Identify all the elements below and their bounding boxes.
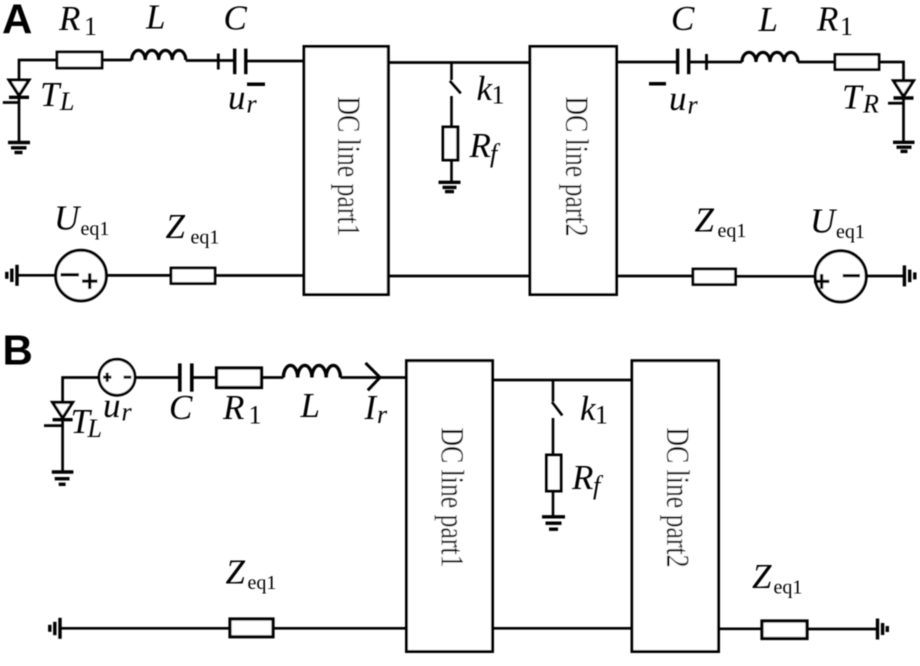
plus inside u_r (B) — [103, 373, 111, 382]
thyristor T_L (A) cathode bar — [9, 96, 29, 99]
switch k1 (A) upper stub — [450, 63, 453, 81]
label T_R — [842, 78, 879, 119]
label Rf (A) — [469, 126, 502, 168]
wire capacitor to L with plus tick (A right) — [690, 61, 742, 64]
wire R1 to thyristor corner (A right) — [879, 62, 904, 81]
label I_r (B) — [364, 388, 389, 429]
svg-text:A: A — [2, 0, 32, 43]
svg-text:eq1: eq1 — [718, 220, 747, 242]
wire part2 to Z_eq1 (B bottom right) — [719, 627, 763, 630]
wire Rf to ground (A) — [450, 160, 453, 182]
wire part2 to capacitor (A right) — [617, 61, 677, 64]
svg-text:C: C — [169, 388, 193, 427]
wire R1 to L (A left) — [102, 59, 132, 62]
svg-text:R: R — [222, 388, 244, 427]
inductor L (A right) — [742, 52, 798, 62]
plus inside U_eq1 right — [814, 274, 829, 289]
thyristor T_R triangle — [894, 81, 914, 97]
svg-text:eq1: eq1 — [248, 572, 277, 594]
inductor L (B) — [283, 365, 340, 377]
label U_eq1 (A left) — [54, 199, 109, 240]
voltage source u_r (B) circle — [99, 359, 135, 395]
svg-text:L: L — [300, 386, 320, 425]
wire thyristor to ground (A left) — [18, 97, 21, 142]
svg-text:r: r — [377, 400, 388, 429]
impedance Z_eq1 (B bottom right) — [762, 621, 807, 639]
svg-text:C: C — [671, 0, 695, 38]
wire source to capacitor (B) — [135, 376, 178, 379]
ground (A left) — [8, 143, 30, 153]
svg-text:L: L — [87, 414, 102, 443]
label U_eq1 (A right) — [810, 202, 865, 244]
svg-text:L: L — [59, 87, 74, 116]
wire Z_eq1 to part1 (B bottom) — [273, 627, 407, 630]
wire B corner thyristor to source — [63, 378, 100, 403]
svg-text:B: B — [3, 327, 33, 374]
resistor Rf (B) — [547, 455, 562, 491]
capacitor C plate right (A left) — [244, 49, 247, 75]
voltage source U_eq1 (A bottom left) circle — [56, 250, 107, 301]
inductor L (A left) — [132, 50, 186, 60]
svg-text:C: C — [224, 0, 248, 38]
svg-text:r: r — [122, 398, 133, 427]
switch k1 (B) upper stub — [552, 380, 555, 402]
wire source to ground (A bottom right) — [866, 275, 904, 278]
label R1 (A left) — [58, 0, 97, 41]
wire thyristor to ground (A right) — [902, 98, 905, 142]
thyristor T_R gate lead — [888, 102, 904, 105]
svg-text:Z: Z — [166, 207, 186, 246]
svg-text:Z: Z — [695, 201, 715, 240]
capacitor C plate right (A right) — [687, 49, 690, 75]
svg-text:DC line part1: DC line part1 — [434, 428, 470, 568]
svg-text:1: 1 — [595, 401, 608, 430]
label k1 (A) — [477, 69, 505, 110]
label Z_eq1 (A left) — [166, 207, 220, 249]
minus inside U_eq1 right — [843, 274, 860, 277]
svg-text:U: U — [54, 199, 82, 238]
svg-text:r: r — [688, 91, 699, 120]
box DC line part1 (B) — [407, 361, 493, 652]
wire capacitor to R1 (B) — [194, 376, 217, 379]
thyristor T_L (B) cathode bar — [53, 418, 73, 421]
label Z_eq1 (B left) — [226, 553, 277, 595]
resistor Rf (A) — [443, 127, 458, 160]
svg-text:eq1: eq1 — [774, 577, 803, 599]
label u_r (A right) — [669, 79, 699, 120]
impedance Z_eq1 (A bottom right) — [693, 269, 736, 285]
wire A top-left from thyristor corner to R1 — [19, 60, 57, 80]
voltage source U_eq1 (A bottom right) circle — [815, 251, 866, 302]
resistor R1 (A left) — [57, 52, 102, 68]
thyristor T_L (A) triangle — [9, 80, 29, 96]
wire Z_eq1 to part1 (A bottom) — [215, 274, 305, 277]
plus polarity tick (A right capacitor) — [705, 54, 708, 70]
wire source to Z_eq1 (A bottom left) — [106, 274, 171, 277]
label k1 (B) — [580, 389, 608, 430]
capacitor C plate left (B) — [178, 363, 182, 391]
svg-text:DC line part1: DC line part1 — [330, 97, 366, 237]
box DC line part2 (A) — [530, 47, 617, 295]
wire Z_eq1 to source (A bottom right) — [736, 275, 816, 278]
svg-text:R: R — [862, 90, 879, 119]
wire L to part1 with current arrow (B) — [340, 376, 407, 379]
label R1 (A right) — [816, 0, 853, 41]
minus inside U_eq1 left — [61, 273, 80, 276]
current arrow I_r (B) — [366, 363, 381, 390]
thyristor T_L (A) gate lead — [3, 101, 19, 104]
svg-text:DC line part2: DC line part2 — [659, 428, 695, 568]
box DC line part1 (A) — [304, 47, 388, 295]
svg-text:R: R — [571, 458, 593, 497]
wire ground to Z_eq1 (B bottom left) — [61, 627, 230, 630]
svg-text:eq1: eq1 — [81, 218, 110, 240]
svg-text:1: 1 — [492, 81, 505, 110]
capacitor C plate left (A right) — [676, 49, 679, 75]
svg-text:Z: Z — [752, 557, 772, 596]
minus inside u_r (B) — [124, 376, 132, 379]
minus sign of u_r (A right) — [649, 82, 666, 86]
minus sign over u_r (A left) — [247, 82, 265, 86]
svg-text:L: L — [145, 0, 165, 37]
wire capacitor to DC line part1 (A) — [247, 60, 305, 63]
ground (B bottom left, rotated) — [50, 618, 60, 639]
svg-text:u: u — [103, 386, 121, 425]
wire part1 to part2 top (B) — [493, 379, 633, 382]
wire L to R1 (A right) — [798, 61, 835, 64]
wire switch to Rf (A) — [450, 96, 453, 127]
wire part1 to part2 top (A) — [388, 61, 530, 64]
svg-text:1: 1 — [84, 12, 97, 41]
svg-text:T: T — [40, 75, 62, 114]
svg-text:Z: Z — [226, 553, 246, 592]
switch k1 (B) blade — [552, 402, 562, 415]
wire part1 to part2 bottom (A) — [388, 275, 530, 278]
wire part2 to Z_eq1 (A bottom right) — [617, 275, 694, 278]
label u_r (B) — [103, 386, 133, 427]
label Z_eq1 (B right) — [752, 557, 802, 599]
label Rf (B) — [571, 458, 604, 500]
thyristor T_L (B) gate lead — [44, 424, 63, 427]
resistor R1 (B) — [217, 368, 262, 388]
plus inside U_eq1 left — [82, 273, 98, 289]
svg-text:u: u — [669, 79, 687, 118]
svg-text:DC line part2: DC line part2 — [558, 97, 594, 237]
capacitor C plate left (A left) — [233, 49, 236, 75]
thyristor T_L (B) triangle — [53, 402, 73, 418]
ground (A bottom left, rotated) — [7, 265, 17, 286]
wire thyristor to ground (B) — [61, 419, 64, 471]
svg-text:R: R — [816, 0, 838, 39]
svg-text:U: U — [810, 202, 838, 241]
svg-text:R: R — [469, 126, 491, 165]
wire Rf to ground (B) — [552, 491, 555, 516]
svg-text:eq1: eq1 — [191, 227, 220, 249]
svg-text:1: 1 — [840, 12, 853, 41]
switch k1 (A) blade — [450, 81, 461, 94]
svg-text:T: T — [842, 78, 864, 117]
ground (B left) — [52, 472, 74, 484]
plus polarity tick (A left capacitor) — [217, 54, 220, 70]
wire L to capacitor C (A left) with plus tick — [186, 59, 233, 62]
box DC line part2 (B) — [632, 361, 719, 652]
svg-text:eq1: eq1 — [836, 221, 865, 243]
ground (A right top) — [893, 142, 915, 151]
ground under Rf (A) — [439, 182, 461, 191]
svg-text:r: r — [247, 90, 258, 119]
wire part1 to part2 bottom (B) — [493, 627, 633, 630]
svg-text:L: L — [758, 0, 778, 39]
label R1 (B) — [222, 388, 262, 430]
label T_L (A) — [40, 75, 74, 116]
ground (B bottom right, rotated) — [878, 619, 888, 640]
capacitor C plate right (B) — [190, 363, 194, 391]
wire switch to Rf (B) — [552, 418, 555, 455]
thyristor T_R cathode bar — [894, 96, 914, 99]
ground under Rf (B) — [542, 517, 565, 529]
ground (A bottom right, rotated) — [904, 265, 914, 286]
impedance Z_eq1 (B bottom left) — [230, 619, 273, 637]
label Z_eq1 (A right) — [695, 201, 747, 243]
wire R1 to L (B) — [262, 376, 284, 379]
svg-text:R: R — [58, 0, 80, 38]
label T_L (B) — [71, 402, 102, 443]
svg-text:u: u — [228, 78, 246, 117]
label u_r (A left) — [228, 78, 258, 119]
wire ground to source U_eq1 (A bottom left) — [19, 274, 57, 277]
wire Z_eq1 to ground (B bottom right) — [807, 628, 876, 631]
impedance Z_eq1 (A bottom left) — [171, 268, 215, 284]
svg-text:1: 1 — [249, 401, 262, 430]
resistor R1 (A right) — [835, 55, 879, 70]
